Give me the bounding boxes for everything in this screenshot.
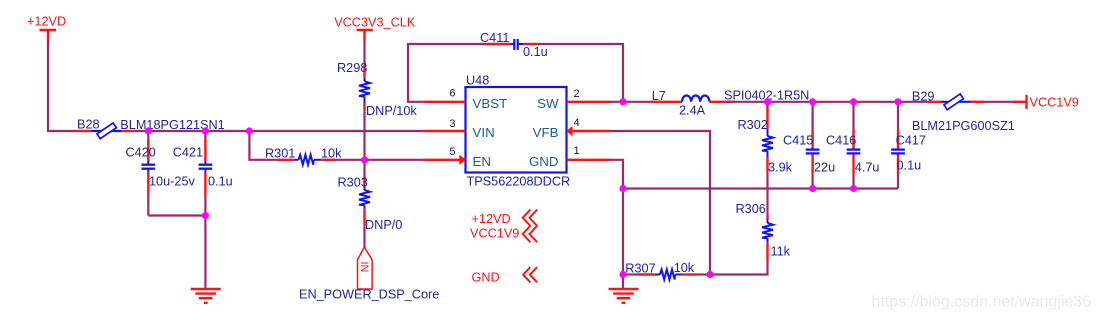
power port +12VD (27, 15, 66, 42)
wire FB node to R307 (697, 273, 710, 275)
off-sheet connector GND (472, 267, 538, 284)
svg-text:L7: L7 (652, 89, 666, 103)
pin 6 VBST (423, 88, 508, 111)
svg-text:22u: 22u (814, 161, 835, 175)
junction dot 15 (706, 271, 713, 278)
svg-text:2.4A: 2.4A (679, 104, 706, 118)
wire C420 bottom to C421 leg (148, 214, 205, 216)
svg-text:B29: B29 (912, 90, 935, 104)
wire R303 to port flag (363, 226, 365, 248)
op-amp/regulator U48 TPS562208DDCR (466, 74, 571, 189)
svg-text:VCC3V3_CLK: VCC3V3_CLK (334, 16, 416, 30)
svg-text:DNP/0: DNP/0 (365, 218, 402, 232)
svg-text:10k: 10k (321, 147, 342, 161)
svg-text:SW: SW (537, 96, 559, 111)
svg-text:IN: IN (358, 262, 370, 273)
junction dot 6 (619, 98, 626, 105)
svg-text:6: 6 (449, 88, 455, 100)
svg-text:10u-25v: 10u-25v (149, 175, 196, 189)
junction dot 13 (850, 185, 857, 192)
ground (C420/C421) (191, 289, 221, 303)
svg-text:+12VD: +12VD (472, 212, 511, 226)
wire VIN rail (135, 130, 423, 132)
off-sheet connector +12VD (472, 210, 538, 226)
ferrite bead B28 (76, 123, 134, 139)
svg-text:R301: R301 (265, 147, 295, 161)
svg-text:1: 1 (574, 145, 580, 157)
wire R307 to GND node (623, 273, 639, 275)
resistor R301 (277, 155, 335, 165)
junction dot 8 (809, 98, 816, 105)
svg-text:R303: R303 (338, 176, 368, 190)
wire EN node to pin 5 (365, 159, 423, 161)
junction dot 4 (202, 212, 209, 219)
svg-text:C421: C421 (173, 145, 203, 159)
resistor R307 (639, 270, 698, 280)
capacitor C421 (199, 131, 213, 195)
wire GND pin1 down (610, 160, 624, 289)
svg-text:VFB: VFB (533, 125, 559, 140)
junction dot 10 (894, 98, 901, 105)
pin 1 GND (529, 145, 610, 169)
resistor R306 (762, 216, 773, 259)
svg-text:3.9k: 3.9k (768, 161, 793, 175)
resistor R298 (359, 66, 370, 111)
svg-text:+12VD: +12VD (27, 15, 66, 29)
svg-text:11k: 11k (771, 245, 791, 259)
resistor R303 (359, 176, 370, 226)
svg-text:0.1u: 0.1u (208, 175, 233, 189)
port flag IN (EN_POWER_DSP_Core) (358, 247, 373, 289)
svg-text:4: 4 (574, 117, 580, 129)
svg-text:B28: B28 (77, 118, 100, 132)
svg-text:GND: GND (529, 154, 559, 169)
junction dot 3 (246, 127, 253, 134)
wire R298 to EN node (crosses VIN rail) (363, 111, 365, 160)
junction dot 5 (361, 156, 368, 163)
junction dot 12 (809, 185, 816, 192)
svg-text:C420: C420 (126, 145, 156, 159)
svg-text:3: 3 (449, 118, 455, 130)
wire R301 to EN node (335, 159, 364, 161)
wire SW pin2 to L7 (610, 101, 653, 103)
wire R306 to FB node (710, 259, 768, 275)
wire C421 to ground (204, 195, 206, 289)
junction dot 2 (202, 127, 209, 134)
svg-text:0.1u: 0.1u (897, 159, 922, 173)
wire +12VD down to VIN rail (48, 42, 77, 132)
junction dot 1 (145, 127, 152, 134)
svg-text:EN_POWER_DSP_Core: EN_POWER_DSP_Core (299, 288, 439, 302)
svg-text:VCC1V9: VCC1V9 (1030, 96, 1079, 110)
pin 5 EN (423, 146, 491, 169)
power port VCC3V3_CLK (334, 16, 416, 42)
svg-text:C416: C416 (826, 134, 856, 148)
svg-text:VCC1V9: VCC1V9 (470, 227, 519, 241)
svg-text:4.7u: 4.7u (855, 161, 880, 175)
svg-text:R298: R298 (337, 61, 367, 75)
svg-text:DNP/10k: DNP/10k (366, 104, 417, 118)
wire C411 to SW node (537, 44, 623, 102)
svg-text:VIN: VIN (473, 125, 495, 140)
ferrite bead B29 (927, 94, 984, 110)
resistor R302 (762, 102, 773, 172)
svg-text:R302: R302 (738, 118, 768, 132)
capacitor C416 (847, 102, 861, 189)
svg-text:0.1u: 0.1u (523, 45, 548, 59)
pin 2 SW (537, 88, 609, 111)
svg-text:C417: C417 (896, 134, 926, 148)
svg-text:5: 5 (449, 146, 455, 158)
svg-text:C411: C411 (480, 31, 509, 45)
svg-text:R306: R306 (736, 202, 766, 216)
junction dot 9 (850, 98, 857, 105)
power port VCC1V9 (1013, 95, 1079, 110)
svg-text:10k: 10k (674, 261, 695, 275)
wire VBST pin6 to C411 loop (408, 44, 485, 102)
pin 4 VFB (533, 117, 610, 140)
wire GND bus (623, 187, 898, 189)
svg-text:https://blog.csdn.net/wangjie3: https://blog.csdn.net/wangjie36 (872, 294, 1092, 311)
ground (U48) (609, 289, 639, 303)
capacitor C411 (485, 39, 537, 50)
off-sheet connector VCC1V9 (470, 226, 537, 242)
capacitor C420 (142, 131, 156, 216)
junction dot 11 (619, 185, 626, 192)
svg-text:U48: U48 (466, 74, 489, 88)
pin 3 VIN (423, 118, 495, 140)
wire R302 to R306 (crosses GND bus) (766, 172, 768, 216)
wire VCC3V3_CLK to R298 (363, 42, 365, 67)
junction dot 7 (764, 98, 771, 105)
wire B29 to VCC1V9 port (984, 101, 1013, 103)
svg-text:EN: EN (473, 154, 491, 169)
junction dot 14 (619, 271, 626, 278)
wire EN node down to R303 (363, 160, 365, 176)
svg-text:TPS562208DDCR: TPS562208DDCR (467, 175, 571, 189)
svg-text:C415: C415 (783, 134, 813, 148)
wire VIN rail to R301 (249, 131, 277, 160)
wire VCC1V9 rail (724, 101, 927, 103)
svg-text:GND: GND (472, 271, 500, 285)
capacitor C415 (806, 102, 820, 189)
capacitor C417 (891, 102, 905, 189)
inductor L7 (652, 95, 735, 101)
svg-text:2: 2 (574, 88, 580, 100)
svg-text:VBST: VBST (473, 96, 508, 111)
wire VFB pin4 to FB node (610, 131, 711, 275)
svg-text:BLM21PG600SZ1: BLM21PG600SZ1 (912, 119, 1015, 133)
